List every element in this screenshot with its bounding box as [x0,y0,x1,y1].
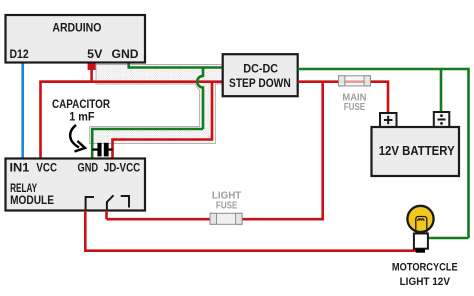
wire: green branch down with hop over red [197,67,203,130]
relay contact NO [86,197,94,210]
light fuse F2 (drawn over wire) [210,213,242,224]
wire: green lower run to capacitor / relay GND [92,129,203,159]
relay contact NC [121,196,129,208]
capacitor C1 leads [92,148,112,150]
svg-text:MODULE: MODULE [10,195,54,207]
capacitor C1 plates [97,143,101,157]
lamp DS1 base [414,234,428,249]
cable sleeve (dotted ribbon, union shape) [90,65,223,144]
svg-text:LIGHT 12V: LIGHT 12V [400,276,451,288]
wire: red branch down to JD-VCC [113,82,213,159]
battery BT1 body [372,127,460,176]
capacitor pointer arrow [70,125,79,148]
lamp DS1 bulb [407,206,433,232]
svg-text:12V BATTERY: 12V BATTERY [379,144,456,158]
Arduino box U1 [6,15,146,63]
DC-DC step down box U2 [223,54,298,96]
svg-text:FUSE: FUSE [344,101,366,113]
wire: red relay NO to motorcycle light [85,211,421,251]
wire: green DC-DC right to battery minus and light [298,69,469,238]
wire: green GND to DC-DC [129,63,223,68]
battery BT1 terminal minus [434,112,450,127]
wire: red 5V pin stub [88,63,96,71]
svg-text:1 mF: 1 mF [69,111,94,123]
svg-text:D12: D12 [10,49,29,61]
lamp filament stem [416,216,427,232]
svg-text:DC-DC: DC-DC [243,63,278,75]
svg-text:STEP DOWN: STEP DOWN [229,78,291,90]
wire: red relay pole down to light fuse run [105,211,108,220]
relay module box K1 [6,159,146,211]
wire: red bus right to DC-DC [41,80,223,83]
svg-text:GND: GND [112,49,139,61]
wire: green branch to battery minus [440,69,443,113]
svg-text:FUSE: FUSE [216,200,238,212]
svg-text:RELAY: RELAY [10,183,37,195]
svg-text:CAPACITOR: CAPACITOR [52,99,111,111]
wire: red 5V down to bus [90,68,93,82]
svg-text:GND: GND [78,162,99,174]
main fuse F1 (wire shows through) [339,76,371,86]
lamp contact cap [416,249,425,253]
wire: red 5V bus left + down to relay VCC [41,82,92,159]
svg-text:VCC: VCC [36,162,57,174]
wire: red branch down to light fuse run [107,82,323,220]
svg-text:JD-VCC: JD-VCC [104,162,140,174]
svg-text:IN1: IN1 [10,162,31,174]
wire: blue D12 to IN1 [21,63,24,159]
relay contact pole with arm [107,195,114,209]
svg-text:ARDUINO: ARDUINO [52,22,101,34]
svg-text:5V: 5V [87,49,103,61]
lamp filament coil [418,219,424,221]
battery BT1 terminal plus [380,113,397,127]
svg-text:MOTORCYCLE: MOTORCYCLE [392,261,458,273]
wire: green lamp to right riser [428,237,469,240]
wire: red DC-DC right to battery plus [298,82,388,113]
